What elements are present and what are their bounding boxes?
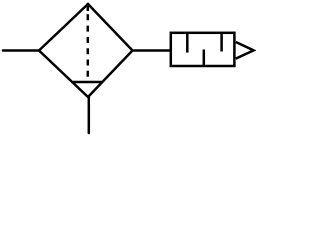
wire: condensate drain line — [88, 97, 91, 133]
filter F1 sump chord — [73, 81, 103, 84]
dryer U1 baffle 2 (from bottom) — [203, 50, 206, 66]
wire: filter to dryer connector — [133, 49, 171, 52]
dryer U1 body (rectangle) — [171, 33, 235, 66]
filter F1 body (diamond) — [39, 4, 133, 97]
filter F1 element (dashed vertical line) — [87, 3, 90, 82]
dryer U1 baffle 3 (from top) — [220, 34, 223, 52]
outlet check arrow — [236, 42, 254, 59]
dryer U1 baffle 1 (from top) — [186, 34, 189, 53]
wire: inlet supply line — [3, 49, 39, 52]
